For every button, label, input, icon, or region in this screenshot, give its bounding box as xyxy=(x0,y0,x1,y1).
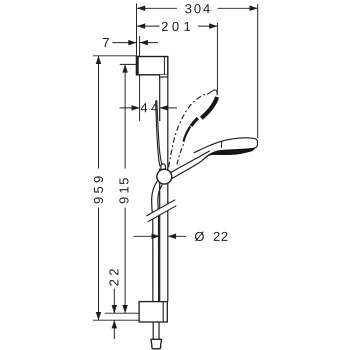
wire: dim line 44 tails xyxy=(120,107,140,109)
wire: rail right edge xyxy=(167,77,169,301)
dark spray face of dashed shower (blob 1) xyxy=(201,97,217,118)
wire: dim line 959 xyxy=(98,56,100,169)
dashed outline left curve xyxy=(169,94,207,167)
arrowheads xyxy=(96,6,258,329)
wire: hose right line xyxy=(158,185,162,302)
handle upper line xyxy=(171,151,210,173)
label dia 22 xyxy=(195,232,228,242)
bottom bracket inner right line xyxy=(162,302,164,322)
arrow 304 left xyxy=(137,6,145,12)
wire: dim line 304 xyxy=(137,7,177,9)
hose conical nut xyxy=(151,339,162,348)
dark spray face of dashed shower (tail) xyxy=(183,126,190,141)
arrow dia22 right points left xyxy=(168,234,176,240)
arrow 7 left points right xyxy=(128,40,136,46)
wire: right extension line x=257.7 xyxy=(257,4,259,138)
dark spray face of solid shower xyxy=(205,148,254,158)
slider knob xyxy=(161,164,166,170)
handle lower line xyxy=(172,158,205,179)
solid hand shower (horizontal position) xyxy=(171,138,258,179)
wire: ext line 959/22 bottom xyxy=(93,319,139,321)
arrow 22 upper down outside xyxy=(112,305,118,313)
arrow 915 top up xyxy=(122,64,128,72)
bracket thick left edge xyxy=(136,56,139,75)
wire: ext line 915 top xyxy=(120,63,139,65)
wire: hose left line xyxy=(152,181,158,301)
arrow 44 left points right xyxy=(132,105,140,111)
dark spray face of dashed shower (blob 2) xyxy=(191,118,198,126)
hose left below xyxy=(152,322,154,339)
label 304 xyxy=(185,4,210,13)
arrow 22 lower up outside xyxy=(112,320,118,328)
wire: inner extension line (7mm plate) xyxy=(139,36,141,121)
arrow 915 bottom down xyxy=(122,305,128,313)
arrow dia22 left points right xyxy=(152,234,160,240)
arrow 959 top up xyxy=(96,56,102,64)
label 22 rotated xyxy=(109,269,118,286)
break symbol (rail interrupted) xyxy=(146,200,176,222)
wire: dim line 915 xyxy=(124,64,126,168)
wire: dim line diameter 22 tails xyxy=(134,235,160,237)
wire: ext line 959 top xyxy=(93,55,136,57)
slider circle xyxy=(157,169,172,184)
bracket lower lip xyxy=(160,75,168,77)
head top outline xyxy=(194,138,258,153)
wire: dim line 7 tails xyxy=(113,42,137,44)
label 959 rotated xyxy=(94,176,103,203)
bracket inner right line xyxy=(163,57,165,75)
label 7 xyxy=(103,38,109,47)
wire: dim line 22 stems xyxy=(113,289,115,314)
break diagonal lower xyxy=(148,206,177,222)
head cap outline (top of dashed shower) xyxy=(207,90,217,95)
dashed inner curve xyxy=(177,143,184,165)
hose below bracket xyxy=(153,322,159,339)
label 915 rotated xyxy=(119,178,128,203)
wire: dim line 201 xyxy=(137,25,160,27)
white gap of break xyxy=(146,200,176,221)
head/handle joint tick xyxy=(220,141,222,148)
wire: mid extension line x=217.4 xyxy=(216,23,218,94)
wire: rail left edge xyxy=(159,76,161,122)
arrow 201 left xyxy=(137,23,145,29)
arrow 44 right points left xyxy=(160,105,168,111)
hose right below xyxy=(158,322,160,339)
label 44 xyxy=(141,103,158,112)
rail (vertical bar) xyxy=(160,76,168,302)
break diagonal upper xyxy=(146,200,175,216)
wire: wall extension line top xyxy=(136,3,138,55)
hose from slider to bottom bracket xyxy=(152,181,163,301)
dashed hand shower (upturned position) xyxy=(169,90,218,167)
slider pin rod (thin rod from slider knob up along rail) xyxy=(156,101,162,166)
hose nut top line xyxy=(151,338,162,340)
top wall bracket xyxy=(136,56,167,77)
dimension texts xyxy=(94,4,228,286)
arrow 959 bottom down xyxy=(96,312,102,320)
arrow 201 right xyxy=(209,23,217,29)
arrow 304 right xyxy=(250,6,258,12)
label 201 xyxy=(162,22,190,31)
arrow 7 right points left xyxy=(140,40,148,46)
bottom bracket xyxy=(139,302,167,322)
wire: ext line 915/22 bottom xyxy=(105,312,139,314)
